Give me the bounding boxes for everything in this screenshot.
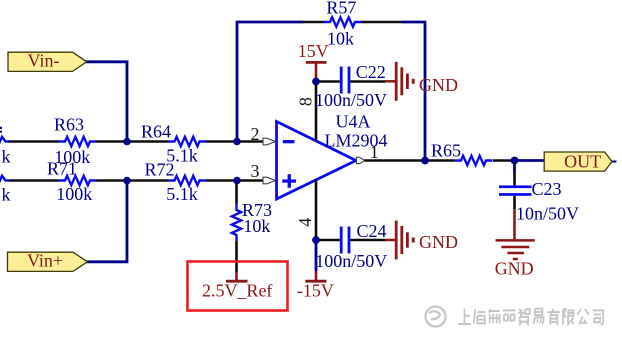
wire line2 segments xyxy=(9,179,59,182)
svg-text:k: k xyxy=(2,185,11,205)
svg-text:100n/50V: 100n/50V xyxy=(315,251,387,271)
svg-text:C23: C23 xyxy=(532,179,562,199)
port OUT xyxy=(612,161,617,163)
svg-text:R72: R72 xyxy=(144,160,174,180)
wire -15V node to C24 xyxy=(316,239,340,242)
red highlight box xyxy=(188,262,288,311)
ground earth below C23 xyxy=(513,196,516,209)
svg-text:2: 2 xyxy=(251,124,260,144)
resistor R57 xyxy=(324,17,362,26)
port Vin- xyxy=(8,52,87,71)
wire output line xyxy=(365,159,455,162)
op-amp output arrow xyxy=(357,157,365,163)
resistor R65 xyxy=(455,156,493,165)
svg-text:100k: 100k xyxy=(56,184,92,204)
wire line1 left partial resistor xyxy=(0,137,9,146)
capacitor C24 xyxy=(340,227,343,254)
power 15V xyxy=(306,61,327,64)
svg-text:GND: GND xyxy=(419,232,458,252)
svg-text:-15V: -15V xyxy=(297,281,334,301)
svg-text:k: k xyxy=(2,147,11,167)
wire 15V node to C22 xyxy=(316,80,340,83)
wire feedback loop xyxy=(237,22,303,142)
resistor R72 xyxy=(168,176,206,185)
resistor R71 xyxy=(59,176,97,185)
svg-text:C24: C24 xyxy=(356,221,386,241)
wire Vin+ to line2 xyxy=(86,181,127,262)
svg-text:1: 1 xyxy=(370,142,379,162)
text fragment left edge xyxy=(0,127,2,129)
svg-text:Vin-: Vin- xyxy=(28,51,60,71)
capacitor C23 xyxy=(513,161,516,174)
watermark logo xyxy=(426,307,446,327)
svg-text:R64: R64 xyxy=(141,122,171,142)
svg-text:10k: 10k xyxy=(243,216,270,236)
port Vin+ xyxy=(8,252,88,271)
svg-text:GND: GND xyxy=(495,259,534,279)
pin 3 arrow xyxy=(263,177,275,184)
svg-text:OUT: OUT xyxy=(564,152,601,172)
watermark text xyxy=(459,309,604,326)
wire Vin- to line1 xyxy=(85,62,127,142)
capacitor C22 xyxy=(340,67,343,94)
resistor R63 xyxy=(59,137,97,146)
svg-text:Vin+: Vin+ xyxy=(27,251,63,271)
wire line2 left partial resistor xyxy=(0,176,9,185)
svg-text:5.1k: 5.1k xyxy=(166,184,198,204)
resistor R64 xyxy=(168,137,206,146)
svg-text:C22: C22 xyxy=(356,62,386,82)
svg-text:10k: 10k xyxy=(327,29,354,49)
resistor R73 xyxy=(235,181,238,204)
pin 2 arrow xyxy=(263,138,275,145)
svg-text:R63: R63 xyxy=(54,115,84,135)
svg-text:4: 4 xyxy=(295,218,315,227)
op-amp U4A xyxy=(277,122,357,200)
pin 4 wire xyxy=(315,180,318,241)
svg-text:10n/50V: 10n/50V xyxy=(516,204,579,224)
svg-text:GND: GND xyxy=(419,75,458,95)
svg-text:8: 8 xyxy=(296,97,316,106)
svg-text:R57: R57 xyxy=(326,0,356,18)
pin 8 wire xyxy=(315,82,318,141)
wire line1 segments xyxy=(9,140,59,143)
svg-text:15V: 15V xyxy=(298,41,329,61)
power -15V xyxy=(315,240,318,271)
svg-text:100n/50V: 100n/50V xyxy=(315,90,387,110)
junction dots xyxy=(123,138,131,146)
svg-text:3: 3 xyxy=(251,161,260,181)
svg-text:U4A: U4A xyxy=(336,112,371,132)
power 2.5V_Ref xyxy=(235,272,238,280)
ground right of C24 xyxy=(385,221,413,260)
svg-text:R65: R65 xyxy=(431,141,461,161)
svg-text:2.5V_Ref: 2.5V_Ref xyxy=(202,281,273,301)
ground right of C22 xyxy=(385,62,413,101)
svg-text:R71: R71 xyxy=(47,159,77,179)
